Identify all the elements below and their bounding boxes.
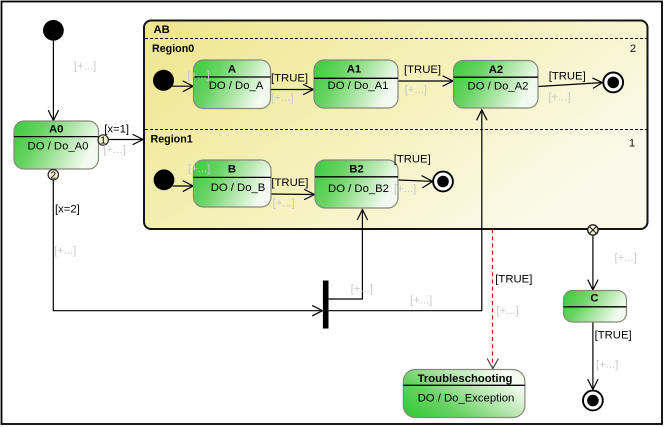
svg-text:AB: AB xyxy=(154,24,170,36)
svg-text:[+...]: [+...] xyxy=(405,84,427,96)
svg-text:DO / Do_B: DO / Do_B xyxy=(211,182,266,194)
svg-text:[TRUE]: [TRUE] xyxy=(549,71,586,83)
svg-text:[TRUE]: [TRUE] xyxy=(495,274,532,286)
svg-text:[+...]: [+...] xyxy=(273,198,295,210)
svg-text:[+...]: [+...] xyxy=(596,359,618,371)
svg-text:[x=2]: [x=2] xyxy=(55,204,80,216)
svg-text:2: 2 xyxy=(51,170,57,181)
svg-text:[TRUE]: [TRUE] xyxy=(394,154,431,166)
svg-text:2: 2 xyxy=(630,43,636,55)
svg-text:[TRUE]: [TRUE] xyxy=(595,330,632,342)
svg-text:[+...]: [+...] xyxy=(496,305,518,317)
svg-text:DO / Do_A: DO / Do_A xyxy=(209,80,264,92)
svg-text:1: 1 xyxy=(629,138,635,150)
svg-text:[TRUE]: [TRUE] xyxy=(271,73,308,85)
svg-text:[+...]: [+...] xyxy=(54,245,76,257)
svg-text:Troubleschooting: Troubleschooting xyxy=(418,373,513,385)
svg-text:DO / Do_A1: DO / Do_A1 xyxy=(328,80,389,92)
svg-text:DO / Do_A0: DO / Do_A0 xyxy=(28,141,89,153)
svg-text:[+...]: [+...] xyxy=(188,163,210,175)
svg-text:[+...]: [+...] xyxy=(548,92,570,104)
svg-text:[+...]: [+...] xyxy=(74,61,96,73)
svg-text:DO / Do_A2: DO / Do_A2 xyxy=(468,80,529,92)
svg-text:A0: A0 xyxy=(49,124,63,136)
svg-text:[TRUE]: [TRUE] xyxy=(271,177,308,189)
svg-text:Region0: Region0 xyxy=(152,43,194,55)
svg-text:[+...]: [+...] xyxy=(271,92,293,104)
svg-text:[+...]: [+...] xyxy=(615,252,637,264)
svg-text:DO / Do_B2: DO / Do_B2 xyxy=(328,183,389,195)
svg-text:[+...]: [+...] xyxy=(394,183,416,195)
svg-text:[+...]: [+...] xyxy=(351,283,373,295)
svg-text:Region1: Region1 xyxy=(151,133,193,145)
svg-text:A: A xyxy=(228,64,236,76)
svg-text:[+...]: [+...] xyxy=(410,295,432,307)
svg-text:[+...]: [+...] xyxy=(188,69,210,81)
svg-text:A2: A2 xyxy=(489,64,503,76)
svg-text:A1: A1 xyxy=(347,64,361,76)
svg-text:DO / Do_Exception: DO / Do_Exception xyxy=(418,393,515,405)
svg-text:B: B xyxy=(228,163,236,175)
svg-text:B2: B2 xyxy=(349,163,363,175)
svg-text:[x=1]: [x=1] xyxy=(104,123,129,135)
svg-text:[+...]: [+...] xyxy=(103,144,125,156)
svg-text:[TRUE]: [TRUE] xyxy=(404,64,441,76)
svg-text:C: C xyxy=(590,293,598,305)
